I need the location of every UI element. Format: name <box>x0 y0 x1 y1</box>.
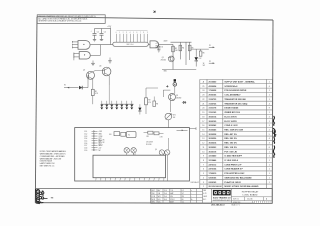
svg-text:SCH 1:1: SCH 1:1 <box>233 199 239 201</box>
svg-text:23: 23 <box>202 95 204 97</box>
svg-text:ELCO 10/25V: ELCO 10/25V <box>224 121 237 123</box>
svg-text:2470112: 2470112 <box>209 163 218 166</box>
svg-text:1: 1 <box>269 169 270 171</box>
svg-text:10K: 10K <box>173 117 176 119</box>
svg-text:R12 2.2K: R12 2.2K <box>99 140 105 142</box>
svg-text:SCREW M3x8: SCREW M3x8 <box>224 86 238 88</box>
svg-text:VR1: VR1 <box>173 114 176 116</box>
svg-text:11: 11 <box>202 147 204 149</box>
title block left grid <box>151 188 212 203</box>
svg-text:10K: 10K <box>175 50 178 52</box>
svg-text:0209166: 0209166 <box>209 177 218 179</box>
svg-text:14: 14 <box>202 134 204 136</box>
svg-text:4.7K: 4.7K <box>95 93 98 95</box>
svg-text:CONN HEADER 9 P: CONN HEADER 9 P <box>224 168 243 171</box>
svg-text:20-109-166-02: 20-109-166-02 <box>209 186 223 188</box>
svg-text:1: 1 <box>269 173 270 175</box>
svg-text:±: ± <box>191 190 192 192</box>
svg-text:R9: R9 <box>156 103 158 105</box>
transistor Q7 <box>165 150 170 155</box>
inner box pin ticks <box>95 178 97 180</box>
svg-text:25: 25 <box>202 86 204 88</box>
svg-text:1: 1 <box>269 182 270 184</box>
svg-text:POT. 10K LIN: POT. 10K LIN <box>224 151 237 153</box>
rail top <box>171 41 192 43</box>
IC board inner box <box>93 155 166 178</box>
svg-text:4.7K: 4.7K <box>160 136 163 138</box>
svg-text:BL 1: BL 1 <box>203 199 206 201</box>
parts list table <box>200 79 272 188</box>
svg-text:3020203: 3020203 <box>209 147 218 149</box>
svg-text:COIN: COIN <box>99 136 103 138</box>
svg-text:3110165: 3110165 <box>209 112 218 114</box>
indicator lamp LP1 <box>173 83 177 87</box>
svg-text:201-166: 201-166 <box>247 199 253 201</box>
svg-text:1: 1 <box>269 112 270 114</box>
svg-text:0.2: 0.2 <box>182 190 184 192</box>
diode D12 <box>195 57 199 60</box>
svg-text:FORM 166: FORM 166 <box>233 202 241 204</box>
svg-text:7: 7 <box>203 164 204 166</box>
svg-text:3020226: 3020226 <box>209 138 218 140</box>
svg-text:13: 13 <box>202 138 204 140</box>
svg-text:J1-2: J1-2 <box>84 134 87 136</box>
svg-text:+12V: +12V <box>155 43 159 45</box>
svg-text:12-4: 12-4 <box>164 190 167 192</box>
ground rail <box>162 69 196 71</box>
svg-text:3120735: 3120735 <box>209 99 218 101</box>
svg-text:3050342: 3050342 <box>209 124 218 127</box>
svg-text:D12: D12 <box>199 58 202 60</box>
svg-text:J1-4: J1-4 <box>84 138 87 140</box>
svg-text:3030118: 3030118 <box>209 151 218 153</box>
diode D6 <box>121 101 123 104</box>
svg-text:1790019: 1790019 <box>209 173 218 175</box>
svg-text:3: 3 <box>269 143 270 145</box>
svg-text:15: 15 <box>202 129 204 131</box>
svg-text:19: 19 <box>202 112 204 114</box>
svg-text:1: 1 <box>269 177 270 179</box>
svg-text:R3: R3 <box>175 48 177 50</box>
svg-text:SUZO TRADING CO: SUZO TRADING CO <box>213 197 231 200</box>
svg-text:Q6: Q6 <box>155 149 157 151</box>
fuse mark <box>174 79 176 81</box>
out arrow 2 <box>209 62 215 64</box>
resistor network RA1 body <box>113 42 149 46</box>
rail to diode <box>191 48 209 50</box>
svg-text:OUT: OUT <box>155 48 158 50</box>
transistor Q8 <box>169 94 176 101</box>
svg-text:15-4: 15-4 <box>164 196 167 198</box>
svg-text:2SC945: 2SC945 <box>161 60 167 62</box>
svg-text:RES. 10K 5%: RES. 10K 5% <box>224 147 237 149</box>
svg-text:R14 330: R14 330 <box>146 144 152 146</box>
svg-text:R13 2.2K: R13 2.2K <box>99 142 105 144</box>
svg-text:C3: C3 <box>161 47 163 49</box>
svg-text:20: 20 <box>202 108 204 110</box>
svg-text:C7 0.1: C7 0.1 <box>99 144 103 146</box>
small box 1 <box>114 132 120 136</box>
svg-text:12: 12 <box>202 143 204 145</box>
svg-text:US 166-02: US 166-02 <box>191 182 199 184</box>
diode D2 <box>101 101 103 104</box>
ground <box>108 58 112 64</box>
capacitor C1 <box>93 29 97 42</box>
svg-text:3020214: 3020214 <box>209 142 218 145</box>
transistor Q3 <box>102 67 111 76</box>
svg-text:8: 8 <box>203 160 204 162</box>
svg-text:1: 1 <box>269 164 270 166</box>
gate U1B <box>79 52 90 59</box>
svg-text:GEWIJZIGD BIJ BALLIGAND: GEWIJZIGD BIJ BALLIGAND <box>224 176 252 179</box>
border frame <box>35 17 273 203</box>
svg-text:Q3: Q3 <box>99 65 101 67</box>
svg-text:+5V: +5V <box>99 147 102 149</box>
svg-text:1: 1 <box>269 99 270 101</box>
resistor array RA1 ticks <box>117 34 148 42</box>
gate U1C <box>150 41 159 48</box>
svg-text:2: 2 <box>203 186 204 188</box>
capacitor C2 <box>100 29 104 41</box>
svg-text:5: 5 <box>269 134 270 136</box>
note box <box>37 15 105 24</box>
svg-text:3: 3 <box>203 182 204 184</box>
svg-text:1: 1 <box>269 156 270 158</box>
output arrow top right <box>177 129 188 131</box>
svg-text:Q8: Q8 <box>176 95 178 97</box>
svg-text:2470104: 2470104 <box>209 168 218 171</box>
svg-text:CON: CON <box>152 196 155 198</box>
revision mark top <box>153 11 156 13</box>
svg-text:GEW: GEW <box>203 196 207 198</box>
svg-text:Q2: Q2 <box>83 70 85 72</box>
resistor R9 <box>153 97 155 102</box>
svg-text:PROJ: PROJ <box>170 199 174 201</box>
svg-text:LOGIC BOARD: LOGIC BOARD <box>243 194 258 197</box>
svg-text:J1-8: J1-8 <box>84 147 87 149</box>
svg-text:10: 10 <box>202 151 204 153</box>
diode D3 <box>106 101 108 104</box>
diode bus <box>101 103 134 105</box>
svg-text:3210450: 3210450 <box>209 155 218 158</box>
transistor Q1 <box>168 56 174 62</box>
ground under gates <box>91 61 95 66</box>
transistor Q4 <box>124 148 129 153</box>
svg-text:ZENER BZX 5V6: ZENER BZX 5V6 <box>224 112 240 114</box>
svg-text:MODIF. UITGEV. DOOR BALLIGAND: MODIF. UITGEV. DOOR BALLIGAND <box>224 185 259 188</box>
svg-text:3020238: 3020238 <box>209 134 218 136</box>
svg-text:3110178: 3110178 <box>209 108 218 110</box>
svg-text:470: 470 <box>148 102 151 104</box>
plus node <box>166 85 168 87</box>
svg-text:6: 6 <box>269 147 270 149</box>
svg-text:COND 0.1 63V: COND 0.1 63V <box>224 125 238 127</box>
svg-text:1: 1 <box>269 160 270 162</box>
svg-text:C1: C1 <box>97 31 99 33</box>
svg-text:ST: ST <box>182 193 184 195</box>
svg-text:CONN PRINT 12 P: CONN PRINT 12 P <box>224 164 242 166</box>
resistor R6 <box>200 49 202 51</box>
svg-text:1: 1 <box>269 95 270 97</box>
svg-text:R11: R11 <box>147 136 150 138</box>
resistors row right <box>148 131 153 134</box>
svg-text:0209165: 0209165 <box>209 182 218 184</box>
scale ruler <box>253 201 273 204</box>
svg-text:RES. 4K7 5%: RES. 4K7 5% <box>224 133 237 136</box>
svg-text:J1-6: J1-6 <box>84 143 87 145</box>
svg-text:24: 24 <box>202 90 204 92</box>
svg-text:3210446: 3210446 <box>209 159 218 162</box>
svg-text:TRANSISTOR 2SD 880: TRANSISTOR 2SD 880 <box>224 98 246 101</box>
resistor R8 <box>145 98 148 105</box>
svg-text:DIODE 1N4148: DIODE 1N4148 <box>224 107 239 110</box>
svg-text:IC 4049 HEX BUFF: IC 4049 HEX BUFF <box>224 155 242 158</box>
svg-text:3120726: 3120726 <box>209 103 218 105</box>
trimmer VR1 <box>165 113 172 120</box>
svg-text:3: 3 <box>269 125 270 127</box>
svg-text:IC ULN 2003 A: IC ULN 2003 A <box>224 159 238 162</box>
transistor Q5 <box>131 148 136 153</box>
svg-text:18: 18 <box>202 116 204 118</box>
inspection stamp <box>36 189 44 204</box>
svg-text:3060109: 3060109 <box>209 121 218 123</box>
svg-text:J1-3: J1-3 <box>84 136 87 138</box>
svg-text:NIET GEBR: R7, C5: NIET GEBR: R7, C5 <box>40 166 55 168</box>
svg-text:4: 4 <box>269 86 270 88</box>
transistor Q6 <box>159 150 164 155</box>
resistor R4 <box>179 45 182 51</box>
svg-text:1: 1 <box>269 151 270 153</box>
svg-text:4: 4 <box>203 177 204 179</box>
svg-text:5: 5 <box>203 173 204 175</box>
svg-text:9: 9 <box>203 156 204 158</box>
svg-text:ELCO 47/16V: ELCO 47/16V <box>224 115 237 118</box>
svg-text:P1: P1 <box>209 45 211 47</box>
svg-text:17: 17 <box>202 121 204 123</box>
svg-text:R4: R4 <box>182 47 184 49</box>
input arrow <box>64 87 79 89</box>
out arrow 1 <box>209 46 215 48</box>
svg-text:1: 1 <box>269 121 270 123</box>
svg-text:2: 2 <box>269 129 270 131</box>
svg-text:COIL ASSEMBLY: COIL ASSEMBLY <box>224 94 241 97</box>
svg-text:J1-5: J1-5 <box>84 140 87 142</box>
diode D1 <box>79 86 82 90</box>
svg-text:2: 2 <box>269 116 270 118</box>
title block <box>151 188 272 203</box>
svg-text:3020245: 3020245 <box>209 128 218 131</box>
svg-text:2SD880: 2SD880 <box>176 98 181 100</box>
svg-text:21: 21 <box>202 103 204 105</box>
svg-text:ZN: ZN <box>182 196 184 198</box>
output stub right <box>189 128 196 130</box>
svg-text:1790028: 1790028 <box>209 90 218 92</box>
svg-text:SUPPLY UNIT ASSY - GENERAL: SUPPLY UNIT ASSY - GENERAL <box>224 81 255 84</box>
svg-text:2090166: 2090166 <box>209 95 218 97</box>
svg-text:1: 1 <box>269 82 270 84</box>
relay K1 <box>126 132 136 138</box>
node rail <box>172 44 174 69</box>
svg-text:6: 6 <box>203 169 204 171</box>
svg-text:C2: C2 <box>104 31 106 33</box>
svg-text:FIN: FIN <box>170 196 173 198</box>
resistor R5 <box>188 45 191 51</box>
svg-text:1K: 1K <box>203 63 205 65</box>
gate U1A <box>78 41 90 50</box>
svg-text:J1-9: J1-9 <box>84 150 87 152</box>
svg-text:4-78: 4-78 <box>203 193 206 195</box>
svg-text:C8 10/16V: C8 10/16V <box>146 142 153 144</box>
svg-text:DIODES 1N4148: DIODES 1N4148 <box>40 161 52 163</box>
svg-text:R6: R6 <box>203 52 205 54</box>
svg-text:J.B: J.B <box>158 193 160 195</box>
svg-text:HOPPER RELAY: HOPPER RELAY <box>242 190 259 193</box>
capacitor C3 <box>157 44 160 52</box>
pcb outline box <box>75 128 190 181</box>
svg-text:RES. 330R 5% 1/2W: RES. 330R 5% 1/2W <box>224 129 243 131</box>
svg-text:16: 16 <box>202 125 204 127</box>
resistor R1 <box>92 79 94 89</box>
svg-text:4: 4 <box>269 138 270 140</box>
svg-text:PCB HOPPER LOGIC: PCB HOPPER LOGIC <box>224 173 245 175</box>
diode D5 <box>116 101 118 104</box>
svg-text:3060114: 3060114 <box>209 115 218 118</box>
svg-text:16-4: 16-4 <box>164 199 167 201</box>
handwritten revision marks <box>273 116 276 158</box>
diode D8 <box>131 101 133 104</box>
transistor Q2 <box>87 71 95 79</box>
manufacturer logo <box>213 190 231 196</box>
svg-text:PLAAT US 165/01: PLAAT US 165/01 <box>224 181 241 184</box>
svg-text:J1-7: J1-7 <box>84 145 87 147</box>
diode D11 <box>182 101 186 103</box>
small box 2 <box>121 132 126 136</box>
svg-text:R8: R8 <box>148 100 150 102</box>
svg-text:201-166-02-3: 201-166-02-3 <box>211 205 225 207</box>
svg-text:P2: P2 <box>209 61 211 63</box>
diode D4 <box>111 101 113 104</box>
svg-text:K1: K1 <box>128 134 130 136</box>
svg-text:TOL: TOL <box>170 190 173 192</box>
svg-text:4330024: 4330024 <box>209 85 218 88</box>
svg-text:2010660: 2010660 <box>209 82 218 84</box>
svg-text:15-4: 15-4 <box>164 193 167 195</box>
diode D9 <box>138 108 141 111</box>
diode D7 <box>126 101 128 104</box>
Q3 emitter down <box>108 76 110 86</box>
svg-text:D10: D10 <box>109 134 112 136</box>
svg-text:J1-1: J1-1 <box>84 131 87 133</box>
svg-text:R1: R1 <box>95 91 97 93</box>
svg-text:4049: 4049 <box>164 41 168 43</box>
svg-text:RES. 1K0 5%: RES. 1K0 5% <box>224 143 237 145</box>
svg-text:4: 4 <box>269 103 270 105</box>
svg-text:22: 22 <box>202 99 204 101</box>
svg-text:Q1: Q1 <box>162 57 164 59</box>
svg-text:1:1: 1:1 <box>182 202 184 204</box>
svg-text:GET: GET <box>152 190 155 192</box>
svg-text:1: 1 <box>269 90 270 92</box>
svg-text:66: 66 <box>182 199 184 201</box>
resistor R3 <box>172 46 175 52</box>
svg-text:RES. 2K2 5%: RES. 2K2 5% <box>224 138 237 140</box>
svg-text:9: 9 <box>269 108 270 110</box>
svg-text:+24V: +24V <box>99 131 103 133</box>
right mid components <box>145 88 147 98</box>
svg-text:PCB SOLENOID DRIVE: PCB SOLENOID DRIVE <box>224 90 247 92</box>
svg-text:TRANSISTOR 2SC 945Q: TRANSISTOR 2SC 945Q <box>224 102 247 105</box>
